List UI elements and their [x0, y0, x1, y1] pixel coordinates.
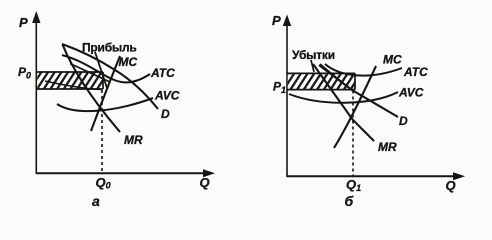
right Q axis	[287, 175, 456, 177]
right loss leader line 1	[311, 60, 314, 72]
svg-text:Прибыль: Прибыль	[82, 41, 137, 55]
svg-text:D: D	[161, 107, 170, 121]
left ATC inner branch segment	[70, 64, 110, 83]
svg-text:P: P	[19, 15, 28, 30]
right MR line	[313, 64, 374, 141]
svg-text:б: б	[345, 193, 354, 209]
svg-text:Q: Q	[200, 175, 210, 190]
svg-text:AVC: AVC	[398, 86, 424, 100]
left MR line	[63, 45, 121, 133]
left Q axis	[36, 172, 206, 174]
right Q axis arrowhead	[453, 172, 465, 180]
svg-text:ATC: ATC	[150, 66, 175, 80]
svg-text:Q: Q	[446, 178, 456, 193]
right P axis	[286, 20, 288, 177]
svg-text:MC: MC	[119, 55, 138, 69]
svg-text:MR: MR	[124, 133, 143, 147]
right ATC curve	[325, 64, 402, 76]
right dashed Q1 line	[352, 91, 354, 176]
left MC curve	[91, 56, 120, 131]
left D demand line	[62, 44, 158, 109]
left profit pointer line	[95, 52, 107, 88]
left ATC curve	[62, 55, 150, 82]
svg-text:P: P	[272, 13, 281, 28]
right MC curve	[334, 66, 376, 148]
right AVC curve	[289, 92, 398, 103]
svg-text:а: а	[92, 193, 100, 209]
right loss hatched rectangle	[288, 73, 355, 89]
left AVC curve	[57, 98, 153, 111]
left P axis arrowhead	[32, 11, 40, 23]
svg-text:ATC: ATC	[403, 65, 428, 79]
right D demand line	[319, 65, 398, 117]
right P axis arrowhead	[283, 15, 291, 27]
svg-text:D: D	[399, 114, 408, 128]
left inner hatch line	[45, 81, 101, 90]
svg-text:AVC: AVC	[154, 89, 180, 103]
svg-text:MR: MR	[378, 140, 397, 154]
svg-text:MC: MC	[383, 53, 402, 67]
left dashed Q0 line	[101, 90, 103, 173]
svg-text:Убытки: Убытки	[292, 48, 335, 62]
left profit hatched rectangle	[37, 72, 103, 89]
left Q axis arrowhead	[203, 169, 215, 177]
right loss leader line 2	[320, 64, 344, 84]
left P axis	[35, 14, 37, 174]
